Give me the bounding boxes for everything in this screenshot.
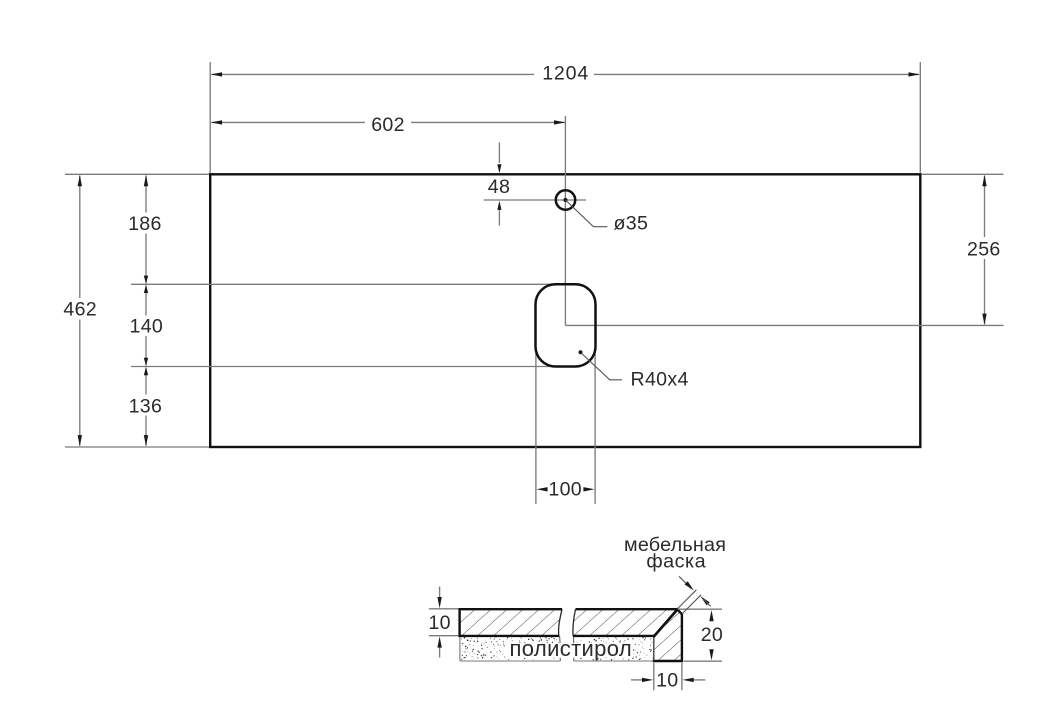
svg-text:R40x4: R40x4 bbox=[631, 369, 689, 391]
svg-text:100: 100 bbox=[548, 478, 582, 500]
svg-text:136: 136 bbox=[129, 396, 163, 418]
svg-text:фаска: фаска bbox=[646, 550, 706, 572]
svg-text:462: 462 bbox=[63, 299, 97, 321]
svg-text:602: 602 bbox=[371, 114, 405, 136]
svg-text:1204: 1204 bbox=[542, 63, 589, 85]
svg-text:256: 256 bbox=[967, 239, 1001, 261]
svg-text:186: 186 bbox=[128, 213, 162, 235]
svg-text:полистирол: полистирол bbox=[510, 636, 632, 661]
svg-text:20: 20 bbox=[701, 624, 723, 646]
svg-text:10: 10 bbox=[656, 670, 678, 692]
svg-text:10: 10 bbox=[428, 612, 450, 634]
svg-text:ø35: ø35 bbox=[614, 212, 649, 234]
svg-text:48: 48 bbox=[488, 176, 510, 198]
svg-text:140: 140 bbox=[130, 316, 164, 338]
